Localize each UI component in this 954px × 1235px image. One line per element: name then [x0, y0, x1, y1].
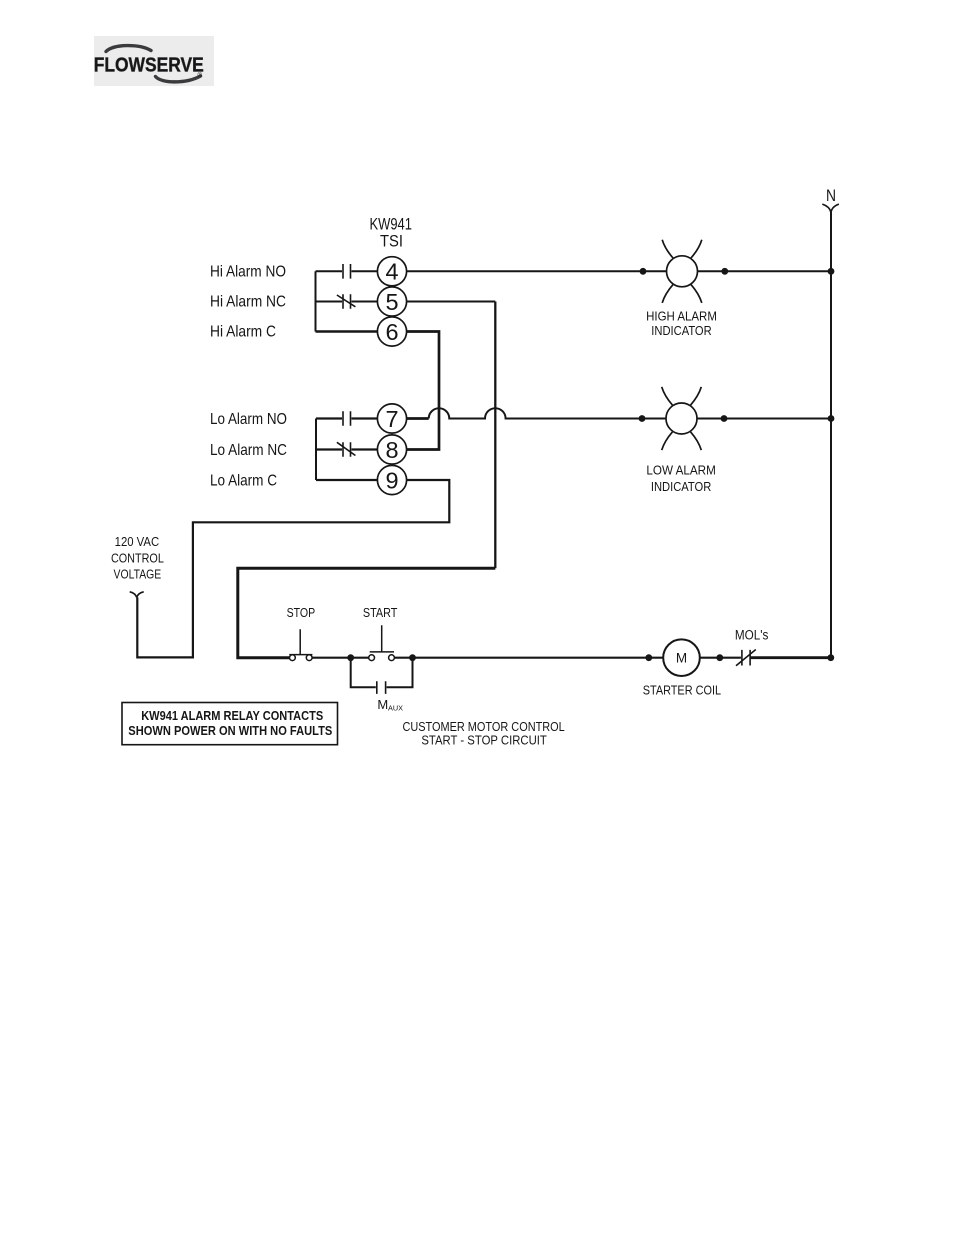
wire row4 to high alarm lamp and bus: [407, 270, 831, 272]
svg-text:INDICATOR: INDICATOR: [651, 323, 711, 338]
pushbutton STOP (NC): [289, 629, 312, 660]
svg-text:9: 9: [385, 467, 398, 493]
node junction row7 bus: [828, 415, 835, 422]
contact Maux: [377, 681, 386, 694]
wire row4 left: [316, 270, 378, 272]
coil M starter: [663, 639, 700, 676]
svg-text:KW941: KW941: [369, 216, 412, 234]
wire lo-alarm left bus: [315, 419, 317, 481]
svg-text:7: 7: [385, 406, 398, 432]
svg-text:FLOWSERVE: FLOWSERVE: [94, 55, 204, 77]
wire row9 to 120VAC source: [137, 480, 449, 657]
contact Lo Alarm NC: [337, 442, 356, 457]
wire rung stop to start: [312, 657, 369, 659]
svg-text:LOW ALARM: LOW ALARM: [646, 463, 715, 478]
node dot row7 left of lamp: [639, 415, 646, 422]
Maux branch wires: [351, 658, 413, 688]
svg-text:VOLTAGE: VOLTAGE: [114, 568, 162, 582]
svg-text:START: START: [363, 605, 398, 620]
svg-text:M: M: [676, 651, 687, 666]
svg-text:®: ®: [198, 72, 203, 79]
svg-text:Lo Alarm C: Lo Alarm C: [210, 472, 277, 489]
node junction row4 bus: [828, 268, 835, 275]
svg-text:M: M: [377, 697, 388, 712]
wire row6 to vertical A: [407, 332, 439, 450]
svg-text:6: 6: [385, 319, 398, 345]
svg-text:INDICATOR: INDICATOR: [651, 479, 712, 494]
wire MOL to bus: [750, 656, 831, 659]
wire vertical B x495: [494, 302, 496, 569]
terminal 5: [377, 287, 406, 316]
wire row5 left: [316, 301, 378, 303]
svg-text:Hi Alarm NC: Hi Alarm NC: [210, 294, 286, 311]
terminal 9: [377, 465, 406, 494]
node dot rung right of start: [409, 654, 416, 661]
node dot rung left of coil: [645, 654, 652, 661]
120VAC source terminal symbol: [130, 592, 144, 598]
svg-text:8: 8: [385, 437, 398, 463]
svg-text:START - STOP CIRCUIT: START - STOP CIRCUIT: [421, 732, 547, 747]
node dot row4 right of lamp: [721, 268, 728, 275]
svg-text:4: 4: [385, 259, 398, 285]
contact MOL (NC): [736, 650, 756, 666]
svg-text:AUX: AUX: [388, 704, 403, 713]
terminal 6: [377, 317, 406, 346]
svg-text:Hi Alarm NO: Hi Alarm NO: [210, 264, 286, 281]
contact Hi Alarm NC: [337, 294, 356, 309]
wire row5 to vertical B: [407, 301, 496, 303]
node dot row4 left of lamp: [640, 268, 647, 275]
svg-text:KW941 ALARM RELAY CONTACTS: KW941 ALARM RELAY CONTACTS: [141, 708, 323, 723]
wire row7 left: [316, 417, 377, 419]
lamp high alarm indicator: [662, 240, 702, 303]
pushbutton START (NO): [369, 625, 395, 660]
svg-text:N: N: [826, 186, 836, 205]
wire row8 left: [316, 448, 377, 450]
contact Hi Alarm NO: [343, 264, 351, 279]
wire bold feed from row5 vertical to rung: [238, 568, 496, 657]
node dot rung end bus: [827, 654, 834, 661]
svg-text:STOP: STOP: [287, 605, 316, 620]
contact Lo Alarm NO: [343, 411, 351, 426]
neutral terminal symbol: [822, 204, 839, 212]
terminal 7: [377, 404, 406, 433]
svg-text:MOL's: MOL's: [735, 627, 769, 642]
svg-text:SHOWN POWER ON WITH NO FAULTS: SHOWN POWER ON WITH NO FAULTS: [128, 723, 332, 738]
node dot rung right of coil: [716, 654, 723, 661]
svg-text:Lo Alarm NO: Lo Alarm NO: [210, 411, 287, 428]
node dot rung left of start: [347, 654, 354, 661]
svg-text:120 VAC: 120 VAC: [115, 535, 160, 549]
svg-text:TSI: TSI: [380, 232, 403, 250]
svg-text:STARTER COIL: STARTER COIL: [643, 683, 721, 698]
terminal 4: [377, 257, 406, 286]
wire row7 bold stub: [407, 417, 429, 420]
svg-text:5: 5: [385, 289, 398, 315]
wire rung start to M coil: [394, 657, 663, 659]
svg-text:HIGH ALARM: HIGH ALARM: [646, 308, 717, 323]
svg-text:CONTROL: CONTROL: [111, 551, 164, 565]
wire hi-alarm left bus: [315, 271, 317, 331]
wire row9 left: [316, 479, 377, 481]
wire row7 hops and run to lamp: [429, 408, 831, 418]
svg-text:Hi Alarm C: Hi Alarm C: [210, 324, 276, 341]
svg-text:Lo Alarm NC: Lo Alarm NC: [210, 442, 287, 459]
node dot row7 right of lamp: [721, 415, 728, 422]
wire row6 left: [316, 330, 378, 333]
wire right bus N: [830, 212, 832, 658]
Flowserve logo: [94, 36, 214, 86]
wire coil to MOL contact: [700, 657, 741, 659]
terminal 8: [377, 435, 406, 464]
lamp low alarm indicator: [662, 387, 702, 450]
note box: [122, 703, 338, 745]
